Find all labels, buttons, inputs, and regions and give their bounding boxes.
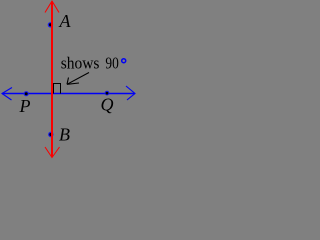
svg-text:Q: Q: [101, 95, 114, 115]
annotation arrow pointing to square: [67, 73, 89, 85]
arrowhead left of line PQ: [2, 88, 12, 101]
svg-text:shows: shows: [61, 54, 100, 73]
svg-text:P: P: [19, 96, 31, 116]
arrowhead top of line AB: [45, 1, 59, 13]
point Q dot: [105, 91, 110, 96]
arrowhead bottom of line AB: [45, 147, 60, 158]
arrowhead right of line PQ: [126, 86, 135, 100]
svg-text:90: 90: [105, 54, 118, 73]
point B dot: [48, 132, 53, 137]
line PQ (horizontal blue line): [2, 93, 135, 95]
line AB (vertical red line): [51, 2, 53, 158]
svg-text:B: B: [59, 125, 70, 145]
annotation degree symbol: [122, 59, 126, 63]
point P dot: [24, 91, 29, 96]
right-angle square at intersection: [54, 84, 61, 94]
svg-text:A: A: [59, 11, 72, 31]
point A dot: [48, 22, 53, 27]
